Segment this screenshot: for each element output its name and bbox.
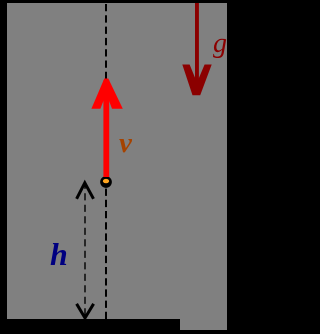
- ball at launch point (orange core): [103, 179, 109, 183]
- label v (initial velocity): [119, 129, 132, 158]
- trajectory dashed line (lower segment): [105, 189, 107, 319]
- height dimension bottom arrowhead: [77, 304, 94, 318]
- label g (gravity): [213, 30, 227, 58]
- gray field with ground step: [7, 3, 227, 330]
- height dimension dashed line: [84, 182, 86, 318]
- trajectory dashed line (upper segment): [105, 4, 107, 80]
- black frame background: [0, 0, 246, 334]
- ball at launch point (black rim): [100, 176, 112, 188]
- velocity arrow shaft: [103, 80, 109, 177]
- label h (height): [50, 238, 68, 270]
- height dimension top arrowhead: [77, 183, 94, 199]
- gravity arrow head: [182, 65, 211, 96]
- gravity arrow shaft: [195, 3, 199, 85]
- velocity arrow head: [91, 79, 122, 109]
